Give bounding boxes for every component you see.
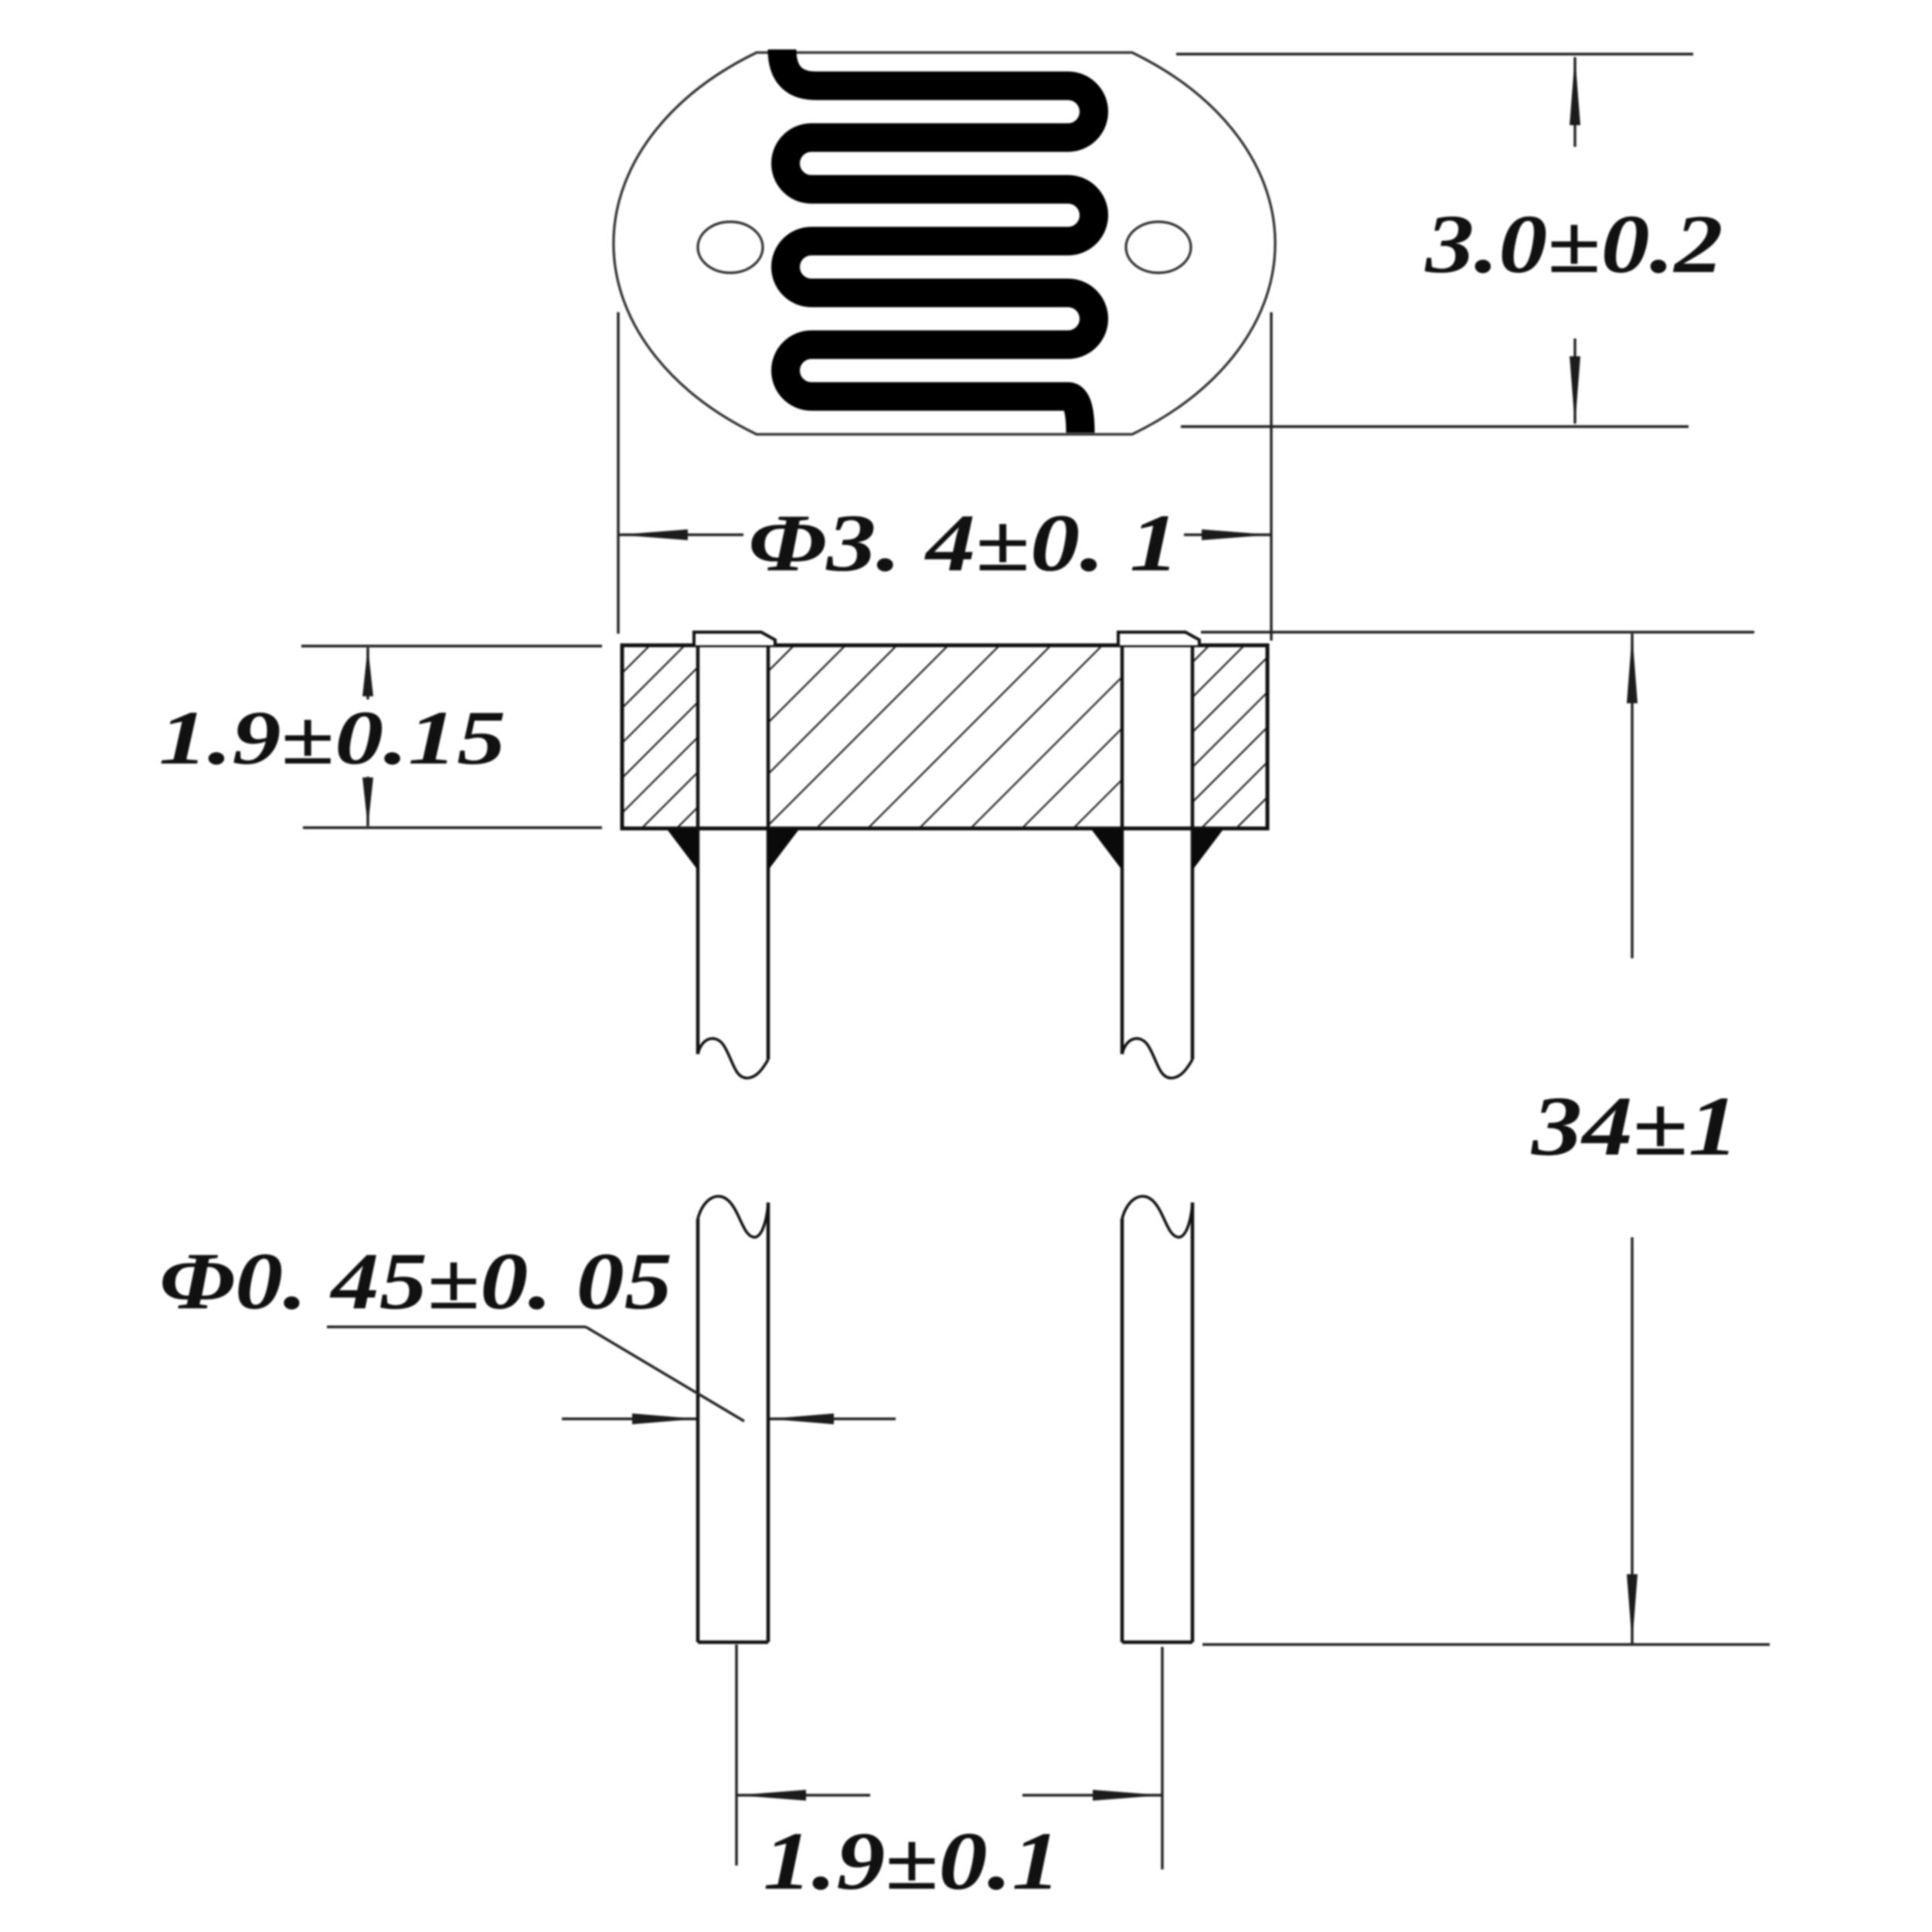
svg-text:34±1: 34±1 (1531, 1079, 1739, 1173)
svg-text:1.9±0.1: 1.9±0.1 (764, 1816, 1061, 1907)
svg-text:1.9±0.15: 1.9±0.15 (159, 695, 506, 781)
svg-text:Φ3. 4±0. 1: Φ3. 4±0. 1 (748, 498, 1179, 588)
svg-text:3.0±0.2: 3.0±0.2 (1424, 199, 1723, 291)
svg-text:Φ0. 45±0. 05: Φ0. 45±0. 05 (159, 1236, 672, 1326)
